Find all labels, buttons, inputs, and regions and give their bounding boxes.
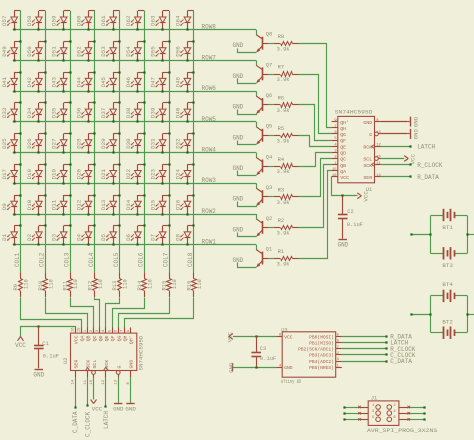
svg-text:VCC: VCC: [363, 191, 370, 202]
LED D54: [125, 40, 146, 61]
LED D39: [150, 101, 171, 122]
resistor R3 3.9k: [269, 188, 299, 206]
svg-text:D41: D41: [1, 76, 8, 87]
wire ROW8 horizontal: [13, 29, 257, 31]
ground GND (U3): [228, 362, 276, 373]
svg-text:D36: D36: [76, 107, 83, 118]
svg-text:GND: GND: [284, 365, 293, 371]
wire LATCH / node LATCH (U3): [342, 340, 409, 347]
transistor Q6: [256, 93, 272, 114]
resistor R4 3.9k: [269, 157, 299, 175]
svg-text:D2: D2: [26, 233, 33, 240]
svg-text:3.9k: 3.9k: [277, 108, 290, 114]
svg-text:D64: D64: [174, 15, 181, 26]
LED D37: [100, 101, 120, 122]
LED D44: [76, 71, 96, 92]
svg-text:QA: QA: [80, 335, 86, 341]
wire COL1 vertical: [20, 11, 22, 273]
wire COL4 to U2 QD: [95, 298, 100, 328]
wire ROW3 to Q3 collector: [256, 183, 258, 188]
svg-text:3.9k: 3.9k: [277, 139, 290, 145]
svg-text:C3: C3: [260, 346, 266, 352]
svg-text:15: 15: [332, 168, 337, 172]
svg-text:ROW5: ROW5: [202, 116, 217, 123]
svg-text:D60: D60: [76, 15, 83, 26]
wire ROW1 horizontal: [13, 244, 257, 246]
wire COL6 vertical: [144, 11, 146, 273]
node COL4: [88, 252, 95, 267]
LED D62: [125, 11, 144, 31]
resistor R15 110: [162, 272, 179, 297]
svg-text:D31: D31: [150, 138, 157, 149]
resistor R14 110: [137, 272, 154, 297]
LED D40: [174, 101, 194, 122]
LED D1: [1, 224, 21, 245]
svg-text:GND: GND: [232, 196, 243, 203]
svg-text:LATCH: LATCH: [103, 411, 110, 429]
power VCC (U3): [227, 331, 277, 342]
svg-text:Q4: Q4: [266, 154, 272, 160]
svg-text:D44: D44: [76, 76, 83, 87]
svg-text:GND: GND: [232, 134, 243, 141]
svg-text:R16: R16: [186, 281, 192, 291]
svg-text:D20: D20: [76, 169, 83, 180]
battery BT1: [442, 209, 454, 231]
svg-text:D14: D14: [125, 199, 132, 210]
wire ROW7 to Q7 collector: [256, 61, 258, 66]
LED D19: [51, 163, 72, 184]
svg-text:D24: D24: [174, 169, 181, 180]
svg-text:G: G: [116, 366, 122, 369]
wire R7 to U1: [299, 75, 332, 134]
svg-text:D59: D59: [51, 15, 58, 26]
ground GND (Q4 emitter): [232, 165, 256, 176]
svg-text:3.9k: 3.9k: [277, 169, 290, 175]
node COL8: [187, 252, 194, 267]
svg-text:SN74HC595D: SN74HC595D: [335, 109, 373, 116]
wire R6 to U1: [299, 105, 332, 141]
battery BT4: [442, 281, 454, 302]
svg-text:D62: D62: [125, 15, 132, 26]
LED D56: [174, 40, 194, 61]
svg-text:COL2: COL2: [39, 252, 46, 267]
svg-text:R5: R5: [278, 126, 284, 132]
svg-text:D5: D5: [100, 233, 107, 240]
svg-text:D30: D30: [125, 138, 132, 149]
svg-text:D48: D48: [174, 76, 181, 87]
wire battery pair A loop: [410, 216, 474, 254]
LED D38: [125, 101, 146, 122]
svg-text:R7: R7: [278, 65, 284, 71]
wire J1 pin 1: [343, 406, 368, 409]
LED D59: [51, 11, 70, 31]
svg-text:110: 110: [24, 279, 30, 289]
capacitor C2 0.1uF: [338, 194, 363, 238]
svg-text:D6: D6: [125, 233, 132, 240]
node ROW5: [202, 116, 217, 123]
svg-text:Q3: Q3: [266, 185, 272, 191]
resistor R7 3.9k: [269, 65, 299, 83]
LED D60: [76, 11, 95, 31]
power VCC (U2 SCL): [91, 377, 103, 412]
svg-text:D50: D50: [26, 46, 33, 57]
node ROW7: [202, 54, 217, 61]
LED D26: [26, 132, 47, 153]
svg-text:C_DATA: C_DATA: [390, 358, 412, 365]
LED D33: [1, 101, 21, 122]
svg-text:R6: R6: [278, 95, 284, 101]
svg-text:D22: D22: [125, 169, 132, 180]
LED D32: [174, 132, 194, 153]
wire J1 pin 5: [343, 418, 368, 421]
svg-text:D18: D18: [26, 169, 33, 180]
transistor Q2: [256, 216, 272, 237]
wire COL2 vertical: [45, 11, 47, 273]
wire C_DATA / node C_DATA: [72, 377, 79, 433]
svg-text:7: 7: [337, 346, 339, 350]
LED D61: [100, 11, 119, 31]
resistor R6 3.9k: [269, 95, 299, 113]
svg-text:R2: R2: [278, 218, 284, 224]
LED D31: [150, 132, 171, 153]
wire ROW1 to Q1 collector: [256, 245, 258, 250]
svg-text:R14: R14: [137, 281, 143, 291]
wire COL5 to U2 QE: [106, 298, 120, 328]
svg-text:QD: QD: [340, 151, 346, 157]
battery BT3: [442, 247, 454, 269]
wire J1 pin 6: [399, 418, 426, 421]
svg-text:D12: D12: [76, 199, 83, 210]
svg-text:QD: QD: [98, 335, 104, 341]
svg-text:BT2: BT2: [442, 319, 453, 326]
svg-text:D9: D9: [1, 203, 8, 210]
transistor Q7: [256, 62, 272, 83]
svg-text:Q5: Q5: [266, 124, 272, 130]
wire COL5 vertical: [119, 11, 121, 273]
svg-text:D33: D33: [1, 107, 8, 118]
node ROW6: [202, 85, 217, 92]
LED D16: [174, 194, 194, 215]
svg-text:QB: QB: [86, 335, 92, 341]
svg-text:D42: D42: [26, 76, 33, 87]
wire COL7 to U2 QG: [119, 298, 170, 328]
svg-text:BT4: BT4: [442, 281, 453, 288]
LED D5: [100, 224, 120, 245]
svg-text:10: 10: [376, 156, 381, 160]
LED D43: [51, 71, 72, 92]
transistor Q4: [256, 154, 272, 175]
svg-text:15: 15: [78, 327, 82, 332]
transistor Q5: [256, 124, 272, 145]
svg-text:110: 110: [197, 279, 203, 289]
svg-text:7: 7: [334, 125, 336, 129]
svg-text:R3: R3: [278, 188, 284, 194]
svg-text:ROW4: ROW4: [202, 147, 217, 154]
wire ROW6 horizontal: [13, 91, 257, 93]
svg-text:D13: D13: [100, 199, 107, 210]
svg-text:D27: D27: [51, 138, 58, 149]
wire COL3 to U2 QC: [71, 298, 94, 328]
svg-text:VCC: VCC: [284, 334, 293, 340]
svg-text:QF: QF: [340, 138, 346, 144]
LED D10: [26, 194, 47, 215]
svg-text:SCK: SCK: [86, 360, 92, 369]
svg-text:COL8: COL8: [187, 252, 194, 267]
svg-text:QF: QF: [110, 335, 116, 341]
LED D46: [125, 71, 146, 92]
node ROW8: [202, 24, 217, 31]
ground GND (C1): [33, 370, 44, 379]
svg-text:QH': QH': [340, 120, 349, 126]
transistor Q1: [256, 247, 272, 268]
svg-text:C2: C2: [347, 209, 353, 215]
svg-text:D53: D53: [100, 46, 107, 57]
svg-text:U3: U3: [281, 327, 287, 333]
svg-text:RCK: RCK: [363, 144, 372, 150]
svg-text:GND: GND: [412, 116, 419, 127]
LED D64: [174, 11, 193, 31]
wire ROW5 to Q5 collector: [256, 122, 258, 127]
LED D63: [150, 11, 169, 31]
wire LATCH / node LATCH (U2): [103, 377, 110, 429]
svg-text:D29: D29: [100, 138, 107, 149]
svg-text:D21: D21: [100, 169, 107, 180]
ground GND (U1 G pin): [381, 129, 420, 140]
LED D4: [76, 224, 96, 245]
LED D47: [150, 71, 171, 92]
LED D30: [125, 132, 146, 153]
LED D45: [100, 71, 120, 92]
wire ROW2 to Q2 collector: [256, 214, 258, 219]
svg-text:D63: D63: [150, 15, 157, 26]
svg-text:G: G: [369, 132, 372, 138]
svg-text:C_DATA: C_DATA: [72, 411, 79, 433]
wire battery pair B loop: [410, 296, 474, 333]
svg-text:R9: R9: [13, 284, 19, 290]
LED D3: [51, 224, 72, 245]
svg-text:QA: QA: [340, 169, 346, 175]
resistor R10 110: [38, 272, 55, 297]
svg-text:VCC: VCC: [92, 405, 103, 412]
svg-text:R_DATA: R_DATA: [417, 174, 439, 181]
svg-text:16: 16: [72, 327, 76, 332]
svg-text:R11: R11: [63, 281, 69, 291]
svg-text:ROW3: ROW3: [202, 177, 217, 184]
svg-text:D43: D43: [51, 76, 58, 87]
LED D51: [51, 40, 72, 61]
LED D7: [150, 224, 171, 245]
svg-text:GND: GND: [363, 120, 372, 126]
svg-text:D51: D51: [51, 46, 58, 57]
node ROW2: [202, 208, 217, 215]
resistor R1 3.9k: [269, 249, 299, 267]
wire R_CLOCK / node R_CLOCK: [381, 162, 443, 169]
resistor R12 110: [87, 272, 104, 297]
svg-text:AVR_SPI_PROG_3X2NS: AVR_SPI_PROG_3X2NS: [367, 427, 438, 434]
svg-text:ROW1: ROW1: [202, 239, 217, 246]
LED D14: [125, 194, 146, 215]
svg-text:GND: GND: [412, 129, 419, 140]
svg-text:QG: QG: [340, 132, 346, 138]
svg-text:R12: R12: [87, 281, 93, 291]
svg-text:16: 16: [332, 174, 337, 178]
svg-text:0.1uF: 0.1uF: [347, 222, 363, 228]
svg-text:QB: QB: [340, 163, 346, 169]
svg-text:SN74HC595D: SN74HC595D: [138, 335, 145, 370]
svg-text:U2: U2: [63, 358, 69, 364]
svg-text:3.9k: 3.9k: [277, 200, 290, 206]
svg-text:COL5: COL5: [113, 252, 120, 267]
svg-text:C_CLOCK: C_CLOCK: [84, 411, 91, 437]
ground GND (U2 GND pin): [125, 377, 136, 413]
svg-text:SCL: SCL: [92, 360, 98, 369]
LED D41: [1, 71, 21, 92]
node COL7: [162, 252, 169, 267]
svg-text:D57: D57: [1, 15, 8, 26]
wire ROW2 horizontal: [13, 214, 257, 216]
LED D28: [76, 132, 96, 153]
svg-text:QH: QH: [340, 126, 346, 132]
svg-text:QH: QH: [123, 335, 129, 341]
svg-text:GND: GND: [113, 406, 124, 413]
power VCC (U1 VCC pin): [332, 177, 370, 202]
node COL2: [39, 252, 46, 267]
svg-text:D35: D35: [51, 107, 58, 118]
LED D6: [125, 224, 146, 245]
LED D20: [76, 163, 96, 184]
svg-text:COL6: COL6: [138, 252, 145, 267]
svg-text:D23: D23: [150, 169, 157, 180]
wire J1 pin 4: [399, 412, 426, 415]
svg-text:D4: D4: [76, 233, 83, 240]
svg-text:VCC: VCC: [340, 175, 349, 181]
wire R_CLOCK / node R_CLOCK (U3): [342, 346, 416, 353]
svg-text:GND: GND: [232, 165, 243, 172]
capacitor C3 0.1uF: [251, 335, 276, 368]
svg-text:COL3: COL3: [63, 252, 70, 267]
svg-text:GND: GND: [232, 257, 243, 264]
svg-text:VCC: VCC: [15, 342, 26, 349]
svg-text:COL7: COL7: [162, 252, 169, 267]
IC U1 SN74HC595D: [332, 109, 382, 193]
svg-text:GND: GND: [33, 372, 44, 379]
LED D25: [1, 132, 21, 153]
svg-text:PB1(MISO): PB1(MISO): [309, 340, 334, 346]
svg-text:11: 11: [376, 162, 381, 166]
svg-text:D32: D32: [174, 138, 181, 149]
wire ROW3 horizontal: [13, 183, 257, 185]
IC U3 ATtiny85: [276, 327, 342, 385]
LED D21: [100, 163, 120, 184]
svg-text:D34: D34: [26, 107, 33, 118]
svg-text:Q8: Q8: [266, 32, 272, 38]
svg-text:110: 110: [172, 279, 178, 289]
svg-text:PB3(ADC3): PB3(ADC3): [309, 353, 334, 359]
svg-text:GND: GND: [125, 406, 136, 413]
svg-text:QG: QG: [116, 335, 122, 341]
power VCC (C1 rail): [15, 327, 75, 350]
svg-text:COL1: COL1: [14, 252, 21, 267]
svg-text:D11: D11: [51, 199, 58, 210]
svg-text:PB2(SCK/ADC1): PB2(SCK/ADC1): [298, 347, 334, 353]
wire R2 to U1: [299, 165, 332, 228]
node COL3: [63, 252, 70, 267]
svg-text:R15: R15: [162, 281, 168, 291]
svg-text:PB4(ADC2): PB4(ADC2): [309, 359, 334, 365]
svg-text:COL4: COL4: [88, 252, 95, 267]
resistor R11 110: [63, 272, 80, 297]
LED D35: [51, 101, 72, 122]
svg-text:GND: GND: [337, 241, 348, 248]
svg-text:BT1: BT1: [442, 224, 453, 231]
svg-text:BT3: BT3: [442, 262, 453, 269]
svg-text:GND: GND: [232, 226, 243, 233]
svg-text:D45: D45: [100, 76, 107, 87]
svg-text:Q2: Q2: [266, 216, 272, 222]
transistor Q8: [256, 32, 272, 53]
svg-text:110: 110: [147, 279, 153, 289]
wire COL2 to U2 QB: [46, 298, 88, 328]
svg-text:0.1uF: 0.1uF: [260, 356, 276, 362]
wire ROW7 horizontal: [13, 60, 257, 62]
svg-text:Q6: Q6: [266, 93, 272, 99]
svg-text:110: 110: [123, 279, 129, 289]
node ROW1: [202, 239, 217, 246]
svg-text:GND: GND: [232, 104, 243, 111]
LED D27: [51, 132, 72, 153]
svg-text:3.9k: 3.9k: [277, 46, 290, 52]
wire COL7 vertical: [169, 11, 171, 273]
svg-text:D52: D52: [76, 46, 83, 57]
svg-text:3.9k: 3.9k: [277, 77, 290, 83]
ground GND (C2): [337, 240, 348, 249]
wire R1 to U1: [299, 171, 332, 259]
svg-text:D15: D15: [150, 199, 157, 210]
svg-text:ROW7: ROW7: [202, 54, 217, 61]
svg-text:SCK: SCK: [363, 163, 372, 169]
wire R8 to U1: [299, 44, 332, 128]
svg-text:SCL: SCL: [363, 157, 372, 163]
svg-text:D39: D39: [150, 107, 157, 118]
resistor R16 110: [186, 272, 203, 297]
LED D50: [26, 40, 47, 61]
svg-text:ROW2: ROW2: [202, 208, 217, 215]
LED D8: [174, 224, 194, 245]
wire ROW6 to Q6 collector: [256, 91, 258, 96]
svg-text:D3: D3: [51, 233, 58, 240]
wire R_DATA / node R_DATA (U3): [342, 334, 412, 341]
capacitor C1 0.1uF: [34, 325, 59, 368]
wire R_DATA / node R_DATA: [381, 174, 440, 181]
svg-text:110: 110: [98, 279, 104, 289]
ground GND (Q3 emitter): [232, 196, 256, 207]
svg-text:D37: D37: [100, 107, 107, 118]
wire C_CLOCK / node C_CLOCK: [84, 377, 91, 437]
LED D18: [26, 163, 47, 184]
svg-text:D54: D54: [125, 46, 132, 57]
resistor R13 110: [112, 272, 129, 297]
svg-text:GND: GND: [228, 362, 235, 373]
svg-text:3.9k: 3.9k: [277, 231, 290, 237]
connector J1 AVR_SPI_PROG_3X2NS: [367, 395, 438, 434]
svg-text:QE: QE: [340, 144, 346, 150]
svg-text:QC: QC: [340, 157, 346, 163]
svg-text:R8: R8: [278, 34, 284, 40]
svg-text:D38: D38: [125, 107, 132, 118]
resistor R8 3.9k: [269, 34, 299, 52]
svg-text:VCC: VCC: [73, 335, 79, 344]
wire COL3 vertical: [70, 11, 72, 273]
